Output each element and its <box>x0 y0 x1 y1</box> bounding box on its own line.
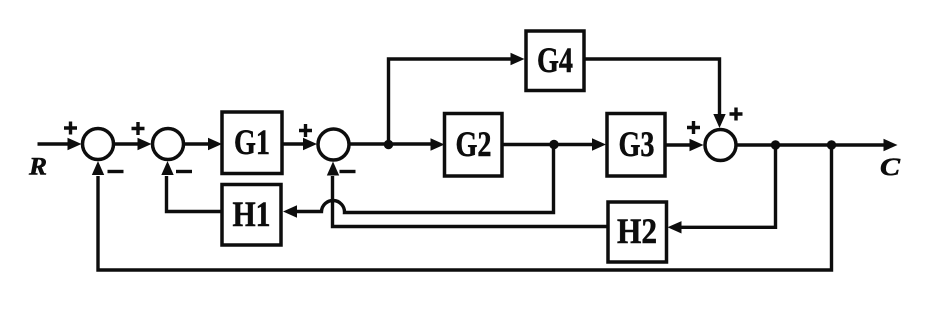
svg-text:H1: H1 <box>233 194 271 234</box>
svg-text:G2: G2 <box>456 124 492 164</box>
svg-text:C: C <box>880 154 900 181</box>
svg-text:H2: H2 <box>617 211 657 251</box>
svg-text:R: R <box>28 154 47 181</box>
svg-text:G3: G3 <box>619 124 655 164</box>
svg-text:G1: G1 <box>234 122 270 162</box>
svg-text:G4: G4 <box>537 40 573 80</box>
